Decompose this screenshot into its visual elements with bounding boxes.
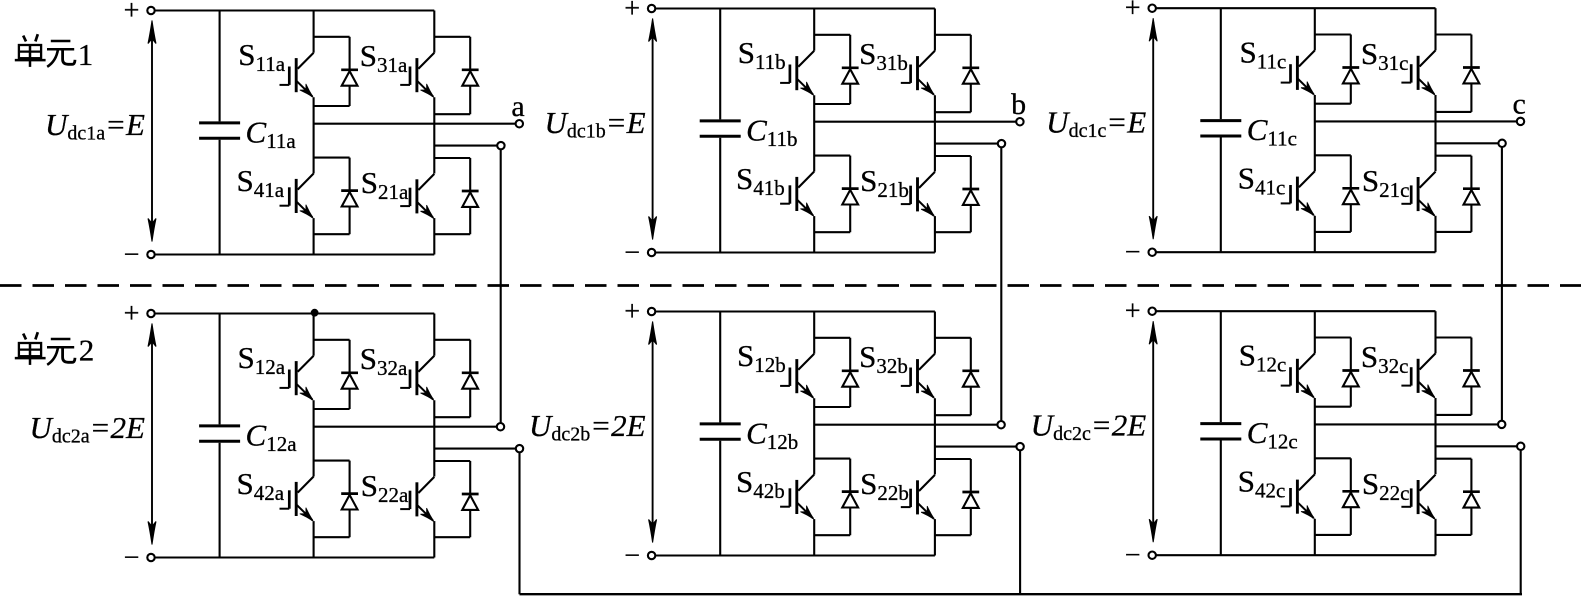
wire right leg of cell 1b — [934, 9, 936, 253]
label S31b — [859, 36, 908, 75]
transistor S41b (IGBT) — [780, 172, 814, 217]
label U_dc1a=E — [45, 107, 145, 145]
label S12c — [1239, 338, 1287, 377]
label S11a — [238, 37, 285, 76]
wire bottom rail of cell 1c — [1156, 251, 1436, 253]
capacitor C12b — [700, 312, 741, 556]
label U_dc1c=E — [1046, 105, 1146, 143]
diode across S21b — [935, 156, 979, 232]
label S42c — [1238, 464, 1286, 503]
node + terminal of cell 2b — [624, 297, 655, 328]
svg-text:+: + — [1125, 0, 1141, 24]
node − terminal of cell 2a — [124, 543, 155, 574]
transistor S12c (IGBT) — [1281, 353, 1315, 398]
svg-text:S11a: S11a — [238, 37, 285, 76]
node series input terminal of cell 2a — [497, 423, 504, 430]
svg-text:Udc1a=E: Udc1a=E — [45, 107, 145, 145]
wire left leg of cell 1a — [313, 11, 315, 255]
label 单元1 (Unit 1) — [15, 34, 93, 72]
svg-text:S42c: S42c — [1238, 464, 1286, 503]
wire neutral tap of cell 2b — [935, 446, 1017, 448]
node neutral terminal of cell 2c — [1517, 443, 1524, 450]
wire left leg of cell 1c — [1314, 8, 1316, 252]
wire series input of cell 2b — [814, 424, 997, 426]
svg-text:Udc2a=2E: Udc2a=2E — [29, 410, 145, 448]
node − terminal of cell 2c — [1125, 540, 1156, 571]
svg-text:Udc2b=2E: Udc2b=2E — [529, 408, 646, 446]
svg-text:C11c: C11c — [1247, 112, 1297, 151]
transistor S22b (IGBT) — [901, 475, 935, 520]
node series terminal of cell 1a — [497, 142, 504, 149]
node − terminal of cell 2b — [624, 541, 655, 572]
diode across S22b — [935, 459, 979, 535]
node + terminal of cell 1c — [1125, 0, 1156, 24]
diode across S42c — [1315, 458, 1359, 535]
label U_dc2b=2E — [529, 408, 646, 446]
wire series tap of cell 1a — [434, 145, 497, 147]
transistor S21a (IGBT) — [400, 174, 434, 219]
label S32b — [859, 339, 908, 378]
label S22b — [860, 466, 909, 505]
label U_dc2c=2E — [1031, 408, 1147, 446]
transistor S22c (IGBT) — [1401, 475, 1435, 519]
diode across S41c — [1315, 155, 1359, 232]
svg-text:S12a: S12a — [238, 340, 286, 379]
svg-text:Udc1b=E: Udc1b=E — [544, 105, 645, 143]
wire phase output of cell 1b — [814, 121, 1016, 123]
node series terminal of cell 1c — [1498, 140, 1505, 147]
diode across S11c — [1315, 35, 1359, 104]
svg-text:S12b: S12b — [737, 338, 786, 377]
diode across S11a — [314, 37, 358, 106]
wire left leg of cell 1b — [813, 9, 815, 253]
svg-text:−: − — [624, 238, 640, 269]
transistor S32b (IGBT) — [901, 354, 935, 399]
wire neutral tap of cell 2a — [434, 448, 516, 450]
diode across S11b — [814, 35, 858, 104]
svg-text:S31a: S31a — [360, 38, 408, 77]
wire bottom rail of cell 2b — [655, 554, 935, 556]
wire neutral bus — [520, 593, 1523, 595]
svg-text:S21b: S21b — [860, 163, 909, 202]
label S32c — [1361, 339, 1409, 378]
svg-text:S41a: S41a — [237, 163, 285, 202]
voltage arrow of cell 2a — [148, 324, 156, 545]
wire neutral drop phase a — [518, 452, 520, 594]
wire bottom rail of cell 1a — [155, 253, 435, 255]
svg-text:−: − — [624, 541, 640, 572]
diode across S22a — [434, 461, 478, 537]
svg-text:S12c: S12c — [1239, 338, 1287, 377]
label C11c — [1247, 112, 1297, 151]
label 单元2 (Unit 2) — [15, 332, 94, 367]
wire top rail of cell 1c — [1156, 7, 1436, 9]
wire right leg of cell 2c — [1434, 311, 1436, 555]
label S42a — [237, 466, 285, 505]
svg-text:a: a — [511, 90, 524, 123]
label S21c — [1362, 163, 1410, 202]
diode across S12c — [1315, 338, 1359, 407]
node + terminal of cell 2c — [1125, 296, 1156, 327]
svg-text:C12b: C12b — [746, 416, 798, 455]
transistor S31c (IGBT) — [1401, 50, 1435, 95]
diode across S42b — [814, 459, 858, 536]
wire left leg of cell 2a — [313, 314, 315, 558]
svg-text:Udc1c=E: Udc1c=E — [1046, 105, 1146, 143]
label S21a — [361, 165, 409, 204]
svg-text:C11b: C11b — [746, 113, 797, 152]
transistor S11b (IGBT) — [780, 51, 814, 95]
label U_dc1b=E — [544, 105, 645, 143]
capacitor C12c — [1200, 311, 1241, 555]
dashed separator between unit 1 and unit 2 — [0, 284, 1581, 287]
wire series tap of cell 1b — [935, 143, 998, 145]
label S12b — [737, 338, 786, 377]
node + terminal of cell 2a — [124, 299, 155, 330]
svg-text:+: + — [124, 0, 140, 27]
svg-text:+: + — [124, 299, 140, 330]
wire top rail of cell 1a — [155, 9, 435, 11]
wire left leg of cell 2c — [1314, 311, 1316, 555]
label S42b — [736, 464, 785, 503]
wire right leg of cell 2a — [433, 314, 435, 558]
label S41c — [1238, 161, 1286, 200]
label C12c — [1247, 415, 1298, 454]
svg-text:2: 2 — [79, 333, 95, 368]
voltage arrow of cell 1c — [1149, 18, 1157, 239]
wire neutral drop phase b — [1019, 450, 1021, 594]
transistor S11c (IGBT) — [1281, 50, 1315, 95]
wire phase output of cell 1c — [1315, 120, 1517, 122]
svg-text:S31c: S31c — [1361, 36, 1409, 75]
voltage arrow of cell 2b — [649, 322, 657, 543]
svg-text:S41b: S41b — [736, 161, 785, 200]
transistor S41a (IGBT) — [280, 174, 314, 219]
voltage arrow of cell 2c — [1149, 321, 1157, 542]
label S31a — [360, 38, 408, 77]
transistor S11a (IGBT) — [280, 53, 314, 97]
node series terminal of cell 1b — [998, 140, 1005, 147]
node phase terminal b — [1011, 88, 1026, 125]
svg-text:C12c: C12c — [1247, 415, 1298, 454]
transistor S21c (IGBT) — [1401, 172, 1435, 217]
svg-text:S32b: S32b — [859, 339, 908, 378]
transistor S31b (IGBT) — [901, 51, 935, 95]
transistor S41c (IGBT) — [1281, 171, 1315, 216]
wire top rail of cell 2a — [155, 312, 435, 314]
svg-text:C12a: C12a — [246, 418, 298, 457]
node neutral terminal of cell 2b — [1016, 443, 1023, 450]
transistor S42a (IGBT) — [280, 477, 314, 522]
svg-text:−: − — [1125, 237, 1141, 268]
node − terminal of cell 1c — [1125, 237, 1156, 268]
wire neutral tap of cell 2c — [1436, 445, 1518, 447]
wire series link phase a (cell 1a to cell 2a) — [500, 149, 502, 423]
label S41b — [736, 161, 785, 200]
svg-text:S22c: S22c — [1362, 466, 1410, 505]
node series input terminal of cell 2c — [1498, 421, 1505, 428]
svg-text:S21c: S21c — [1362, 163, 1410, 202]
label S21b — [860, 163, 909, 202]
label S22a — [361, 468, 409, 507]
node neutral terminal of cell 2a — [516, 445, 523, 452]
wire series tap of cell 1c — [1436, 142, 1499, 144]
voltage arrow of cell 1a — [148, 21, 156, 242]
wire right leg of cell 1c — [1434, 8, 1436, 252]
wire phase output of cell 1a — [314, 123, 516, 125]
node phase terminal a — [511, 90, 524, 127]
svg-text:S22a: S22a — [361, 468, 409, 507]
svg-text:S41c: S41c — [1238, 161, 1286, 200]
svg-text:S11b: S11b — [738, 35, 786, 74]
svg-text:S11c: S11c — [1240, 35, 1287, 74]
svg-text:1: 1 — [78, 37, 94, 72]
wire left leg of cell 2b — [813, 312, 815, 556]
label C11a — [246, 115, 297, 154]
transistor S42c (IGBT) — [1281, 474, 1315, 519]
wire top rail of cell 1b — [655, 7, 935, 9]
wire neutral drop phase c — [1520, 450, 1522, 594]
transistor S32a (IGBT) — [400, 356, 434, 401]
label S11c — [1240, 35, 1287, 74]
transistor S12b (IGBT) — [780, 354, 814, 399]
transistor S31a (IGBT) — [400, 53, 434, 97]
wire bottom rail of cell 2c — [1156, 554, 1436, 556]
wire series input of cell 2a — [314, 426, 497, 428]
wire bottom rail of cell 1b — [655, 251, 935, 253]
wire top rail of cell 2b — [655, 310, 935, 312]
label S11b — [738, 35, 786, 74]
capacitor C11a — [199, 11, 240, 255]
diode across S41b — [814, 156, 858, 233]
svg-text:−: − — [124, 543, 140, 574]
diode across S21c — [1436, 156, 1480, 232]
svg-text:+: + — [624, 297, 640, 328]
transistor S32c (IGBT) — [1401, 353, 1435, 398]
capacitor C11c — [1200, 8, 1241, 252]
diode across S32a — [434, 340, 478, 417]
svg-text:+: + — [624, 0, 640, 25]
svg-text:C11a: C11a — [246, 115, 297, 154]
node − terminal of cell 1a — [124, 240, 155, 271]
node series input terminal of cell 2b — [997, 421, 1004, 428]
diode across S21a — [434, 158, 478, 234]
diode across S32c — [1436, 338, 1480, 415]
node + terminal of cell 1a — [124, 0, 155, 27]
svg-text:S21a: S21a — [361, 165, 409, 204]
junction dot on cell 2a top rail — [311, 309, 318, 316]
diode across S22c — [1436, 459, 1480, 535]
diode across S42a — [314, 461, 358, 538]
diode across S32b — [935, 338, 979, 415]
label U_dc2a=2E — [29, 410, 145, 448]
label C12b — [746, 416, 798, 455]
node + terminal of cell 1b — [624, 0, 655, 25]
svg-text:Udc2c=2E: Udc2c=2E — [1031, 408, 1147, 446]
svg-text:b: b — [1011, 88, 1026, 121]
svg-text:S42b: S42b — [736, 464, 785, 503]
capacitor C11b — [700, 9, 741, 253]
node − terminal of cell 1b — [624, 238, 655, 269]
wire right leg of cell 1a — [433, 11, 435, 255]
label S31c — [1361, 36, 1409, 75]
diode across S12b — [814, 338, 858, 407]
node phase terminal c — [1513, 88, 1526, 125]
capacitor C12a — [199, 314, 240, 558]
svg-text:−: − — [1125, 540, 1141, 571]
diode across S41a — [314, 158, 358, 235]
wire right leg of cell 2b — [934, 312, 936, 556]
transistor S21b (IGBT) — [901, 172, 935, 217]
label S22c — [1362, 466, 1410, 505]
svg-text:S42a: S42a — [237, 466, 285, 505]
label S41a — [237, 163, 285, 202]
svg-text:S31b: S31b — [859, 36, 908, 75]
wire top rail of cell 2c — [1156, 310, 1436, 312]
svg-text:c: c — [1513, 88, 1526, 121]
wire series link phase c (cell 1c to cell 2c) — [1501, 147, 1503, 421]
label C12a — [246, 418, 298, 457]
svg-text:−: − — [124, 240, 140, 271]
diode across S31a — [434, 37, 478, 114]
voltage arrow of cell 1b — [649, 19, 657, 240]
svg-text:S22b: S22b — [860, 466, 909, 505]
wire bottom rail of cell 2a — [155, 556, 435, 558]
label S32a — [360, 341, 408, 380]
label S12a — [238, 340, 286, 379]
svg-text:S32c: S32c — [1361, 339, 1409, 378]
transistor S12a (IGBT) — [280, 356, 314, 401]
svg-text:S32a: S32a — [360, 341, 408, 380]
label C11b — [746, 113, 797, 152]
diode across S12a — [314, 340, 358, 409]
wire series input of cell 2c — [1315, 423, 1498, 425]
wire series link phase b (cell 1b to cell 2b) — [1000, 147, 1002, 421]
diode across S31b — [935, 35, 979, 112]
diode across S31c — [1436, 35, 1480, 112]
transistor S42b (IGBT) — [780, 475, 814, 520]
svg-text:+: + — [1125, 296, 1141, 327]
transistor S22a (IGBT) — [400, 477, 434, 522]
